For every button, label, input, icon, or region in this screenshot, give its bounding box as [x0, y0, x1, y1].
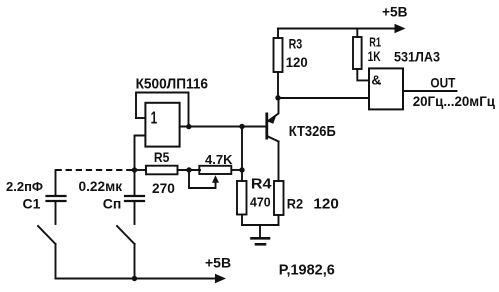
svg-text:120: 120: [313, 196, 338, 212]
svg-text:OUT: OUT: [430, 75, 456, 90]
svg-text:120: 120: [286, 55, 308, 70]
svg-text:КТ326Б: КТ326Б: [289, 124, 336, 140]
svg-text:470: 470: [250, 194, 271, 209]
svg-text:&: &: [371, 72, 381, 87]
svg-text:R4: R4: [251, 177, 272, 193]
svg-text:270: 270: [152, 181, 175, 196]
svg-text:531ЛА3: 531ЛА3: [394, 49, 440, 64]
svg-text:+5В: +5В: [382, 4, 408, 19]
svg-text:20Гц...20мГц: 20Гц...20мГц: [413, 94, 496, 109]
svg-text:R3: R3: [289, 37, 303, 52]
svg-text:4.7K: 4.7K: [205, 152, 233, 167]
svg-text:С1: С1: [23, 195, 41, 211]
svg-text:1K: 1K: [368, 49, 381, 64]
svg-text:Р,1982,6: Р,1982,6: [279, 263, 335, 279]
svg-text:0.22мк: 0.22мк: [79, 179, 123, 194]
svg-text:R1: R1: [369, 34, 381, 49]
svg-text:2.2пФ: 2.2пФ: [6, 179, 43, 194]
svg-text:R2: R2: [287, 196, 304, 212]
svg-text:+5В: +5В: [205, 255, 231, 271]
svg-text:R5: R5: [154, 149, 170, 165]
svg-text:1: 1: [151, 107, 158, 127]
svg-text:Сп: Сп: [103, 195, 122, 211]
svg-text:К500ЛП116: К500ЛП116: [136, 76, 208, 93]
